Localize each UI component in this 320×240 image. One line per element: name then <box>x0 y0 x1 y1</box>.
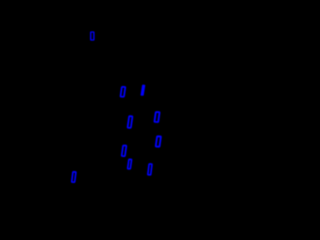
atom N5 <box>128 116 133 128</box>
atom N2 <box>120 87 125 97</box>
molecule structure on black background: only blue N atom labels visible <box>0 0 200 200</box>
atom N6 <box>156 136 161 146</box>
atom N4 <box>154 112 159 122</box>
atom N9 <box>148 164 152 175</box>
atom N7 <box>122 145 127 156</box>
atom N3 (blurred) <box>140 85 145 96</box>
atom N8 <box>128 159 132 169</box>
atom N1 (top) <box>91 32 94 40</box>
atom N10 (bottom left) <box>72 172 76 182</box>
